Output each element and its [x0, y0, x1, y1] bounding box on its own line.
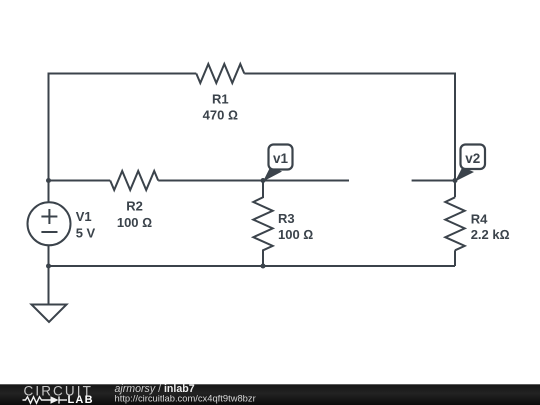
- node junction v1: [261, 178, 266, 183]
- svg-text:R2: R2: [126, 199, 143, 214]
- resistor R4: [445, 197, 464, 250]
- node junction R3 bottom: [261, 264, 266, 269]
- svg-text:v1: v1: [273, 151, 289, 166]
- resistor R2: [110, 171, 158, 190]
- svg-text:R3: R3: [278, 211, 295, 226]
- svg-text:R4: R4: [471, 211, 488, 226]
- node v2 flag box: [461, 145, 486, 170]
- voltage source V1: [28, 202, 71, 245]
- svg-text:470 Ω: 470 Ω: [203, 108, 238, 123]
- svg-text:LAB: LAB: [68, 394, 94, 405]
- svg-text:5 V: 5 V: [76, 226, 96, 241]
- svg-text:R1: R1: [212, 91, 229, 106]
- svg-text:V1: V1: [76, 209, 92, 224]
- svg-text:100 Ω: 100 Ω: [117, 215, 152, 230]
- wire middle right stub: [412, 180, 455, 182]
- wire left vertical + top left lead: [49, 74, 197, 203]
- wire V1 bottom to ground: [48, 245, 50, 304]
- node v1 flag tail: [263, 167, 282, 182]
- resistor R1: [196, 64, 244, 83]
- wire middle left: [49, 180, 111, 182]
- wire R4 bottom lead: [454, 250, 456, 266]
- svg-text:v2: v2: [465, 151, 480, 166]
- node junction V1 top: [46, 178, 51, 183]
- ground: [32, 305, 67, 323]
- node v2 flag tail: [455, 167, 474, 182]
- resistor R3: [253, 181, 272, 267]
- wire middle to open terminal: [158, 180, 349, 182]
- wire top right lead + right vertical: [244, 74, 455, 198]
- logo waveform: [23, 396, 68, 403]
- footer bar: [0, 384, 540, 405]
- node junction v2: [453, 178, 458, 183]
- logo diode triangle: [51, 396, 59, 404]
- svg-text:http://circuitlab.com/cx4qft9t: http://circuitlab.com/cx4qft9tw8bzr: [115, 392, 256, 403]
- wire bottom horizontal: [49, 265, 456, 267]
- svg-text:2.2 kΩ: 2.2 kΩ: [471, 227, 510, 242]
- svg-text:100 Ω: 100 Ω: [278, 227, 313, 242]
- node v1 flag box: [269, 145, 293, 170]
- node junction V1 bottom: [46, 264, 51, 269]
